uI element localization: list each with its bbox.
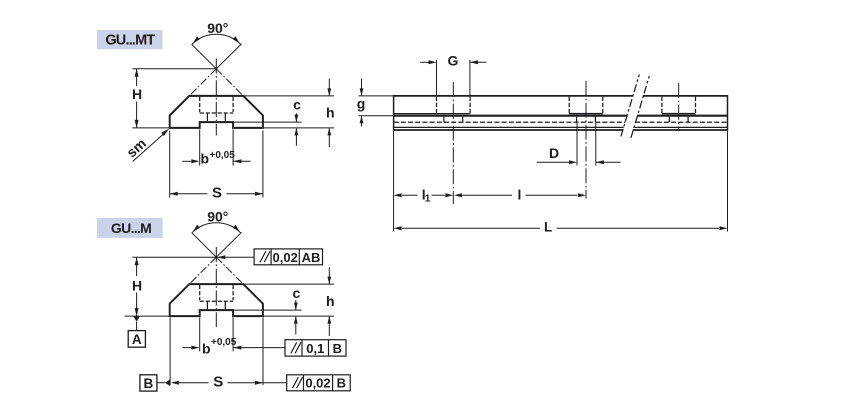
- rail left end: [393, 95, 395, 131]
- rail bottom edge: [394, 129, 623, 131]
- datum B fig2: [140, 375, 157, 391]
- dimension h fig2: [244, 283, 334, 285]
- rail hidden groove line: [394, 121, 625, 123]
- dimension l1: [402, 194, 418, 196]
- svg-text:0,1: 0,1: [306, 341, 324, 356]
- profile outline fig2: [170, 284, 263, 316]
- svg-text:H: H: [132, 277, 142, 293]
- svg-text:B: B: [333, 341, 342, 356]
- hole 3 centerline: [678, 83, 680, 131]
- dimension g: [359, 95, 394, 97]
- svg-text:AB: AB: [302, 250, 321, 265]
- hole 2 counterbore hidden lines: [568, 97, 570, 116]
- dimension D: [576, 123, 578, 166]
- dimension S fig2: [169, 318, 171, 386]
- hole 1 bore lines: [443, 117, 445, 123]
- profile outline fig1: [170, 96, 263, 128]
- tolerance frame 0,1 B fig2: [285, 340, 346, 356]
- svg-text:S: S: [213, 374, 223, 391]
- hidden counterbore fig1: [199, 97, 201, 112]
- svg-text:D: D: [549, 145, 559, 161]
- 90-deg arc fig1: [192, 34, 241, 44]
- break lines: [621, 75, 639, 137]
- hole 3 counterbore hidden lines: [661, 97, 663, 116]
- left end extension line: [393, 131, 395, 232]
- hole 1 centerline: [452, 82, 454, 204]
- label GU...MT: [97, 30, 163, 49]
- angle arms fig2: [192, 233, 217, 258]
- svg-text:b: b: [202, 340, 211, 356]
- centerline fig2: [215, 247, 217, 327]
- dimension b fig1: [199, 130, 201, 166]
- 45-deg construction lines fig1: [188, 69, 217, 98]
- tolerance frame 0,02 B fig2: [287, 375, 351, 391]
- svg-text:S: S: [212, 184, 222, 201]
- svg-text:G: G: [447, 52, 458, 68]
- svg-text:0,02: 0,02: [305, 376, 330, 391]
- svg-text:+0,05: +0,05: [211, 337, 237, 348]
- hidden hole walls fig1: [206, 113, 208, 122]
- rail right end: [727, 95, 729, 131]
- hole 2 centerline: [585, 81, 587, 199]
- label GU...M: [97, 218, 163, 238]
- datum A fig2: [133, 316, 139, 321]
- dimension l: [462, 194, 512, 196]
- svg-text:90°: 90°: [207, 209, 228, 225]
- dimension H fig2: [132, 256, 216, 258]
- surface finish leader sm fig1: [133, 131, 168, 162]
- angle arms fig1: [192, 44, 217, 69]
- svg-text:B: B: [337, 376, 346, 391]
- svg-text:0,02: 0,02: [273, 250, 298, 265]
- svg-text:GU...M: GU...M: [111, 220, 151, 236]
- svg-text:90°: 90°: [207, 20, 228, 36]
- dimension S fig1: [169, 131, 171, 198]
- tolerance frame 0,02 AB fig2: [217, 256, 254, 258]
- svg-text:c: c: [293, 96, 301, 112]
- svg-text:GU...MT: GU...MT: [105, 32, 155, 48]
- rail end aux line: [394, 113, 470, 115]
- hidden counterbore fig2: [199, 285, 201, 300]
- svg-text:b: b: [201, 150, 210, 166]
- dimension c fig2: [234, 309, 301, 311]
- svg-text:L: L: [544, 219, 552, 234]
- dimension H fig1: [132, 68, 216, 70]
- svg-text:+0,05: +0,05: [210, 150, 236, 161]
- svg-text:B: B: [144, 376, 154, 391]
- hole 3 bore lines: [668, 117, 670, 123]
- rail top edge: [394, 95, 633, 97]
- dimension c fig1: [234, 121, 301, 123]
- svg-text:h: h: [326, 104, 335, 120]
- svg-text:h: h: [326, 293, 335, 309]
- dimension h fig1: [244, 95, 334, 97]
- rail shoulder edge: [394, 115, 627, 117]
- 90-deg arc fig2: [192, 223, 241, 233]
- svg-text:g: g: [357, 96, 366, 112]
- svg-text:H: H: [132, 86, 142, 102]
- dimension G: [436, 60, 438, 96]
- svg-text:1: 1: [425, 194, 431, 205]
- hole 1 counterbore hidden lines: [436, 97, 438, 116]
- hole 2 bore lines: [576, 117, 578, 123]
- centerline fig1: [215, 59, 217, 136]
- svg-text:c: c: [293, 285, 301, 301]
- dimension L: [402, 227, 540, 229]
- right end extension line: [727, 131, 729, 232]
- hidden hole walls fig2: [206, 301, 208, 310]
- rail lower thin edge: [394, 126, 624, 128]
- svg-text:A: A: [132, 332, 142, 347]
- dimension b fig2: [199, 318, 201, 352]
- 45-deg construction lines fig2: [188, 257, 217, 285]
- svg-text:l: l: [518, 187, 522, 203]
